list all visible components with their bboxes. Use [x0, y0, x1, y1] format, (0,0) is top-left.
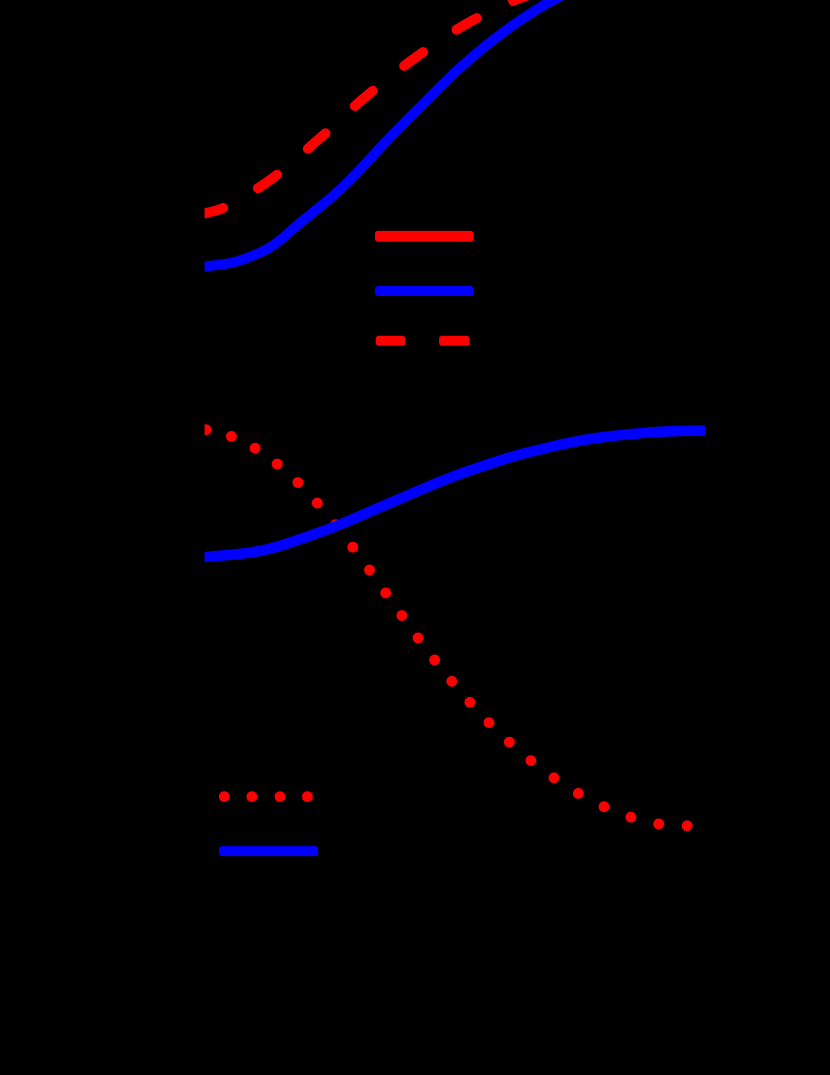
top legend: red dashed line (dash 1) — [376, 336, 406, 346]
top legend: red solid line — [375, 231, 474, 242]
bottom panel: red dotted curve — [201, 424, 693, 831]
top panel: red dashed curve — [196, 0, 536, 215]
bottom legend: red dotted line (4 dots) — [219, 791, 313, 802]
top legend: blue solid line — [375, 286, 474, 296]
top panel: blue solid curve — [196, 0, 575, 267]
top legend: red dashed line (dash 2) — [439, 336, 470, 346]
bottom panel: blue solid curve — [196, 431, 705, 558]
bottom legend: blue solid line — [219, 846, 318, 856]
